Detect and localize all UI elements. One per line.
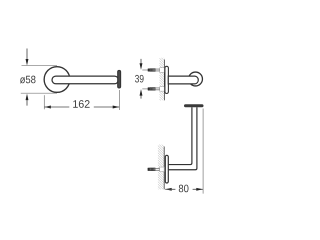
dimension o58 bottom arrow: [26, 94, 29, 106]
wall face line (bottom): [163, 147, 165, 190]
dimension 39 bottom extension line: [142, 88, 148, 90]
label 162: [73, 100, 89, 108]
dimension 162 right extension line: [119, 90, 121, 110]
arm inner line (L shape): [169, 107, 192, 164]
label 80: [179, 185, 189, 193]
end cap disc (side): [189, 72, 203, 86]
screw (bottom view): [148, 167, 165, 172]
wall face line (side): [163, 60, 165, 101]
label 39: [135, 75, 144, 83]
wall hatch (bottom): [158, 145, 164, 190]
top screw: [148, 68, 165, 73]
wall plate circle (front): [44, 67, 70, 93]
dimension 80 right extension line: [202, 109, 204, 194]
arm (side): [168, 76, 198, 84]
dimension 39 top arrow: [140, 59, 143, 70]
wall plate (side): [165, 66, 169, 93]
wall hatch (side): [160, 58, 165, 101]
dimension o58 top arrow: [26, 49, 29, 66]
dimension 162 left extension line: [43, 95, 45, 109]
dimension 162 line with arrows: [44, 106, 119, 109]
dimension o58 bottom extension line: [21, 92, 57, 94]
wall plate (bottom view): [165, 155, 168, 183]
label o58: [20, 76, 36, 84]
dimension 39 top extension line: [142, 69, 148, 71]
end cap (front): [118, 70, 121, 88]
bottom screw: [148, 87, 165, 92]
dimension 80 line with arrows: [165, 188, 203, 191]
roll bar (top of bottom view): [184, 104, 204, 107]
arm outer line (L shape): [169, 107, 197, 170]
dimension 39 bottom arrow: [140, 89, 143, 99]
dimension o58 top extension line: [22, 65, 58, 67]
arm (front): [52, 76, 118, 84]
